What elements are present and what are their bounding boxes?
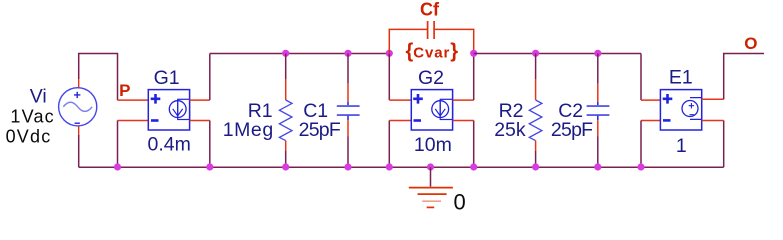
capacitor C2 <box>587 54 610 168</box>
junction dot G2 - input at rail <box>386 163 393 170</box>
wire E1 output bottom down to rail <box>723 121 725 168</box>
svg-text:10m: 10m <box>414 134 452 156</box>
svg-text:25pF: 25pF <box>551 119 593 141</box>
junction dot C1 top <box>344 50 351 57</box>
junction dot C1 bottom <box>344 163 351 170</box>
bottom rail ground net <box>79 166 724 168</box>
VCVS E1 <box>660 90 701 130</box>
svg-text:O: O <box>744 34 757 53</box>
svg-text:1Meg: 1Meg <box>223 119 274 141</box>
capacitor Cf (selected, red) <box>389 21 473 53</box>
G2 output pin lead top <box>453 99 474 101</box>
svg-text:G1: G1 <box>154 67 180 89</box>
svg-text:0Vdc: 0Vdc <box>6 126 52 146</box>
wire Vi top to G1 + input <box>79 54 118 101</box>
svg-text:{Cvar}: {Cvar} <box>406 41 459 63</box>
junction dot G1 - input at rail <box>114 163 121 170</box>
wire G2 + input from top rail <box>388 54 390 101</box>
svg-text:0: 0 <box>454 190 466 215</box>
wire G1 output down to rail <box>209 121 211 168</box>
wire E1 + input from top rail <box>640 54 642 101</box>
ground 0 <box>409 167 453 207</box>
E1 output pin lead top <box>702 98 724 100</box>
junction dot ground <box>427 163 434 170</box>
junction dot G2 output bottom <box>470 163 477 170</box>
svg-text:E1: E1 <box>669 67 693 89</box>
G1 + input pin lead <box>118 99 149 101</box>
wire Vi bottom down to ground rail <box>78 135 80 167</box>
wire E1 output to node O <box>724 54 764 100</box>
wire E1 - input down to rail <box>640 121 642 168</box>
E1 + input pin lead <box>641 99 660 101</box>
svg-text:G2: G2 <box>418 67 444 89</box>
svg-text:1Vac: 1Vac <box>10 106 55 126</box>
voltage source Vi <box>59 79 97 136</box>
junction dot R1 bottom <box>282 163 289 170</box>
E1 - input pin lead <box>641 120 660 122</box>
svg-text:P: P <box>119 81 130 100</box>
junction dot G2 input top <box>386 50 393 57</box>
svg-text:25pF: 25pF <box>299 119 341 141</box>
VCCS G2 <box>411 90 452 130</box>
wire G1 output up to top rail <box>209 54 211 101</box>
junction dot R2 bottom <box>532 163 539 170</box>
svg-text:Vi: Vi <box>30 86 47 108</box>
wire G2 - input down to rail <box>388 121 390 168</box>
G2 - input pin lead <box>389 120 411 122</box>
resistor R1 <box>279 54 292 168</box>
wire G2 output down to rail <box>473 121 475 168</box>
G1 output pin lead bottom <box>190 120 210 122</box>
junction dot C2 top <box>594 50 601 57</box>
junction dot R1 top <box>282 50 289 57</box>
capacitor C1 <box>337 54 360 168</box>
junction dot C2 bottom <box>594 163 601 170</box>
junction dot E1 - input at rail <box>637 163 644 170</box>
top rail left section <box>210 53 389 55</box>
wire G1 - input down to rail <box>117 121 119 168</box>
G1 output pin lead top <box>190 99 210 101</box>
svg-text:1: 1 <box>676 135 687 157</box>
E1 output pin lead bottom <box>702 120 724 122</box>
svg-text:0.4m: 0.4m <box>148 133 191 155</box>
wire G2 output up to top rail <box>473 54 475 101</box>
G2 + input pin lead <box>389 99 411 101</box>
junction dot G1 output at rail <box>206 163 213 170</box>
svg-text:Cf: Cf <box>420 0 440 20</box>
top rail right section <box>474 53 641 55</box>
svg-text:25k: 25k <box>494 119 526 141</box>
G2 output pin lead bottom <box>453 120 474 122</box>
VCCS G1 <box>148 90 189 130</box>
junction dot R2 top <box>532 50 539 57</box>
G1 - input pin lead <box>118 120 149 122</box>
resistor R2 <box>529 54 542 168</box>
junction dot G2 output top <box>470 50 477 57</box>
